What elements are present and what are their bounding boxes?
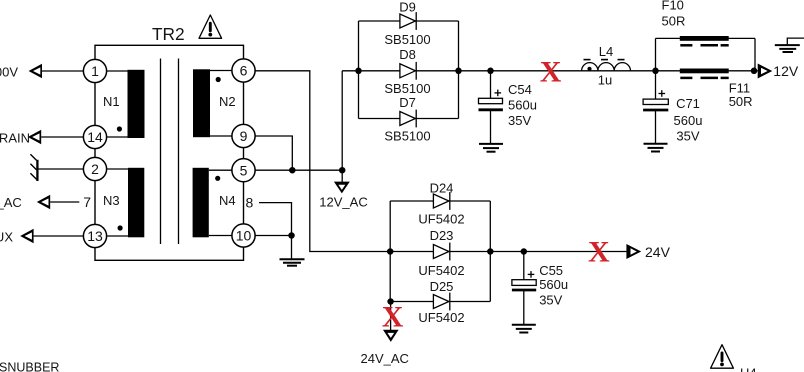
svg-text:SB5100: SB5100 xyxy=(384,129,430,144)
ground at C55 xyxy=(512,325,536,333)
wire pin 9 elbow down to pin 5 net xyxy=(244,136,293,170)
svg-text:7: 7 xyxy=(83,194,91,210)
svg-text:X: X xyxy=(540,55,562,88)
svg-text:DRAIN: DRAIN xyxy=(0,130,30,145)
svg-text:10: 10 xyxy=(236,228,252,244)
capacitor C54 xyxy=(479,90,503,110)
wire winding N2 to pin 9 xyxy=(210,135,244,137)
wire 24V main line xyxy=(390,251,626,253)
winding N3 bar xyxy=(128,168,144,238)
12V_AC net arrow symbol xyxy=(334,182,350,194)
svg-text:L4: L4 xyxy=(599,44,613,59)
diode D25 xyxy=(433,293,449,311)
wire 12V_AC stem xyxy=(341,170,343,182)
svg-text:X: X xyxy=(588,235,610,268)
svg-text:24V: 24V xyxy=(645,244,671,260)
svg-text:AUX: AUX xyxy=(0,229,13,244)
warning triangle at TR2 xyxy=(199,15,222,38)
svg-text:N3: N3 xyxy=(103,193,120,208)
wire F10/F11 left vertical xyxy=(655,38,657,70)
svg-text:13: 13 xyxy=(87,228,103,244)
svg-text:UF5402: UF5402 xyxy=(418,211,464,226)
node 12V_AC junction xyxy=(339,167,346,174)
svg-text:D24: D24 xyxy=(430,180,454,195)
winding N1 bar xyxy=(128,70,145,138)
wire 12V_AC node up to rectifier rail xyxy=(341,71,343,170)
wire pin 14 to winding N1 xyxy=(95,136,128,138)
wire right rail of D9/D8/D7 xyxy=(458,21,460,119)
svg-text:_AC: _AC xyxy=(0,195,22,210)
wire port 400V to pin 1 xyxy=(42,70,95,72)
diode D7 xyxy=(400,110,416,128)
svg-text:SB5100: SB5100 xyxy=(384,81,430,96)
chassis symbol at pin 2 xyxy=(30,154,37,181)
svg-text:UF5402: UF5402 xyxy=(418,310,464,325)
node diode rail right xyxy=(455,68,462,75)
port arrow AUX xyxy=(20,229,33,243)
svg-text:N2: N2 xyxy=(219,94,236,109)
diode D9 xyxy=(400,12,416,30)
svg-text:35V: 35V xyxy=(539,293,562,308)
ferrite bead F10 xyxy=(680,36,729,45)
phase dot N2 xyxy=(216,77,221,82)
wire C54 lower stem to ground xyxy=(490,110,492,144)
svg-text:24V_AC: 24V_AC xyxy=(361,351,409,366)
ground top right xyxy=(775,45,800,52)
wire F10/F11 right vertical xyxy=(754,38,756,70)
node 24V rail right xyxy=(487,248,494,255)
wire pin 2 to winding N3 xyxy=(95,168,129,170)
svg-text:2: 2 xyxy=(91,161,99,177)
svg-text:D8: D8 xyxy=(399,47,416,62)
phase dot N3 xyxy=(118,225,123,230)
svg-text:560u: 560u xyxy=(539,277,568,292)
wire port DRAIN to pin 14 xyxy=(41,136,95,138)
wire C71 lower stem to ground xyxy=(655,110,657,143)
output port arrow 24V xyxy=(626,244,641,259)
pin 14 circle xyxy=(83,125,106,148)
warning triangle bottom right xyxy=(711,345,734,369)
wire right rail of D24/D23/D25 xyxy=(489,201,491,302)
svg-text:UF5402: UF5402 xyxy=(418,263,464,278)
output port arrow 12V xyxy=(758,64,773,79)
svg-text:X: X xyxy=(382,300,404,333)
wire left rail of D9/D8/D7 xyxy=(358,21,360,119)
node diode rail left xyxy=(355,68,362,75)
24V_AC net arrow symbol xyxy=(383,330,399,342)
svg-text:35V: 35V xyxy=(676,128,699,143)
phase dot L4 xyxy=(587,67,591,71)
wire D24 branch xyxy=(390,200,490,202)
pin 13 circle xyxy=(83,224,106,247)
diode D24 xyxy=(433,192,449,210)
svg-text:F10: F10 xyxy=(662,0,684,12)
pin 6 circle xyxy=(232,59,255,82)
svg-text:12V: 12V xyxy=(773,63,799,79)
wire winding N4 to pin 10 xyxy=(209,235,244,237)
node 24V rail left xyxy=(387,248,394,255)
svg-text:D23: D23 xyxy=(430,228,454,243)
svg-text:N1: N1 xyxy=(103,94,120,109)
svg-text:SB5100: SB5100 xyxy=(384,32,430,47)
node L4 output / C71 tap xyxy=(652,68,659,75)
ground at pin 8/10 junction xyxy=(280,259,305,266)
wire top right ground hook xyxy=(787,38,804,44)
capacitor C55 xyxy=(512,271,536,290)
node F10/F11 right xyxy=(751,68,758,75)
svg-text:50R: 50R xyxy=(662,13,686,28)
wire D25 branch xyxy=(390,301,490,303)
capacitor C71 xyxy=(643,90,668,110)
svg-text:5: 5 xyxy=(240,162,248,178)
svg-text:12V_AC: 12V_AC xyxy=(319,195,367,210)
wire main 12V line xyxy=(342,70,758,72)
winding N2 bar xyxy=(193,69,210,137)
transformer core lines xyxy=(161,59,179,245)
wire pin 8 to ground junction xyxy=(259,203,292,236)
wire port _AC toward pin 7 xyxy=(50,201,79,203)
svg-text:35V: 35V xyxy=(508,113,531,128)
svg-text:6: 6 xyxy=(240,63,248,79)
svg-text:N4: N4 xyxy=(219,193,236,208)
pin 2 circle xyxy=(83,157,106,180)
svg-text:D25: D25 xyxy=(430,279,454,294)
svg-text:8: 8 xyxy=(246,194,254,210)
svg-text:400V: 400V xyxy=(0,64,18,79)
svg-text:C71: C71 xyxy=(676,96,700,111)
svg-text:H4: H4 xyxy=(740,365,757,372)
svg-text:1: 1 xyxy=(91,63,99,79)
svg-text:14: 14 xyxy=(87,129,103,145)
wire D9 branch xyxy=(359,20,459,22)
phase dot N4 xyxy=(215,176,220,181)
wire pin 1 to winding N1 xyxy=(95,70,128,72)
wire C55 lower stem to ground xyxy=(523,290,525,324)
pin 10 circle xyxy=(232,224,255,247)
pin 1 circle xyxy=(83,59,106,82)
port arrow 400V xyxy=(29,64,42,78)
port arrow _AC xyxy=(37,195,50,209)
svg-text:D7: D7 xyxy=(399,95,416,110)
ground at C54 xyxy=(479,144,503,152)
svg-text:TR2: TR2 xyxy=(152,24,185,44)
svg-text:9: 9 xyxy=(240,128,248,144)
wire C55 stem xyxy=(523,252,525,280)
wire pin 5 to 12V_AC node xyxy=(244,169,343,171)
inductor L4 xyxy=(582,60,631,71)
wire pin 13 to winding N3 xyxy=(95,235,129,237)
svg-text:1u: 1u xyxy=(598,72,612,87)
wire pin 6 down to 24V rectifier feed xyxy=(244,71,391,252)
wire left rail of D24/D23/D25 xyxy=(389,201,391,302)
wire winding N4 to pin 5 xyxy=(209,169,244,171)
wire chassis to pin 2 xyxy=(39,168,96,170)
wire 24V_AC stem xyxy=(390,302,392,331)
wire C71 stem xyxy=(655,71,657,99)
port arrow DRAIN xyxy=(28,130,41,144)
wire pin 10 to ground junction xyxy=(244,235,292,237)
svg-text:560u: 560u xyxy=(508,97,537,112)
node pin5/pin9 junction xyxy=(289,167,296,174)
svg-text:560u: 560u xyxy=(674,113,703,128)
svg-text:C54: C54 xyxy=(508,82,532,97)
pin 5 circle xyxy=(232,159,255,182)
phase dot N1 xyxy=(117,126,122,131)
svg-text:D9: D9 xyxy=(399,0,416,15)
diode D8 xyxy=(400,62,416,80)
svg-text:SNUBBER: SNUBBER xyxy=(0,360,59,372)
diode D23 xyxy=(433,243,449,261)
wire winding N2 to pin 6 xyxy=(210,70,244,72)
ground at C71 xyxy=(644,144,668,152)
wire C54 stem xyxy=(490,71,492,99)
wire ground stem at pin 8/10 junction xyxy=(291,236,293,260)
winding N4 bar xyxy=(193,168,209,238)
node C55 tap xyxy=(521,248,528,255)
ferrite bead F11 xyxy=(680,69,729,78)
node pin8/pin10 ground junction xyxy=(288,232,295,239)
svg-text:50R: 50R xyxy=(729,94,753,109)
pin 9 circle xyxy=(232,124,255,147)
wire F10 branch xyxy=(656,37,756,39)
node D25 / 24V_AC junction xyxy=(387,298,394,305)
wire port AUX to pin 13 xyxy=(34,235,95,237)
transformer TR2 outline box xyxy=(95,45,244,260)
svg-text:C55: C55 xyxy=(539,263,563,278)
node C54 tap xyxy=(487,68,494,75)
wire D7 branch xyxy=(359,118,459,120)
